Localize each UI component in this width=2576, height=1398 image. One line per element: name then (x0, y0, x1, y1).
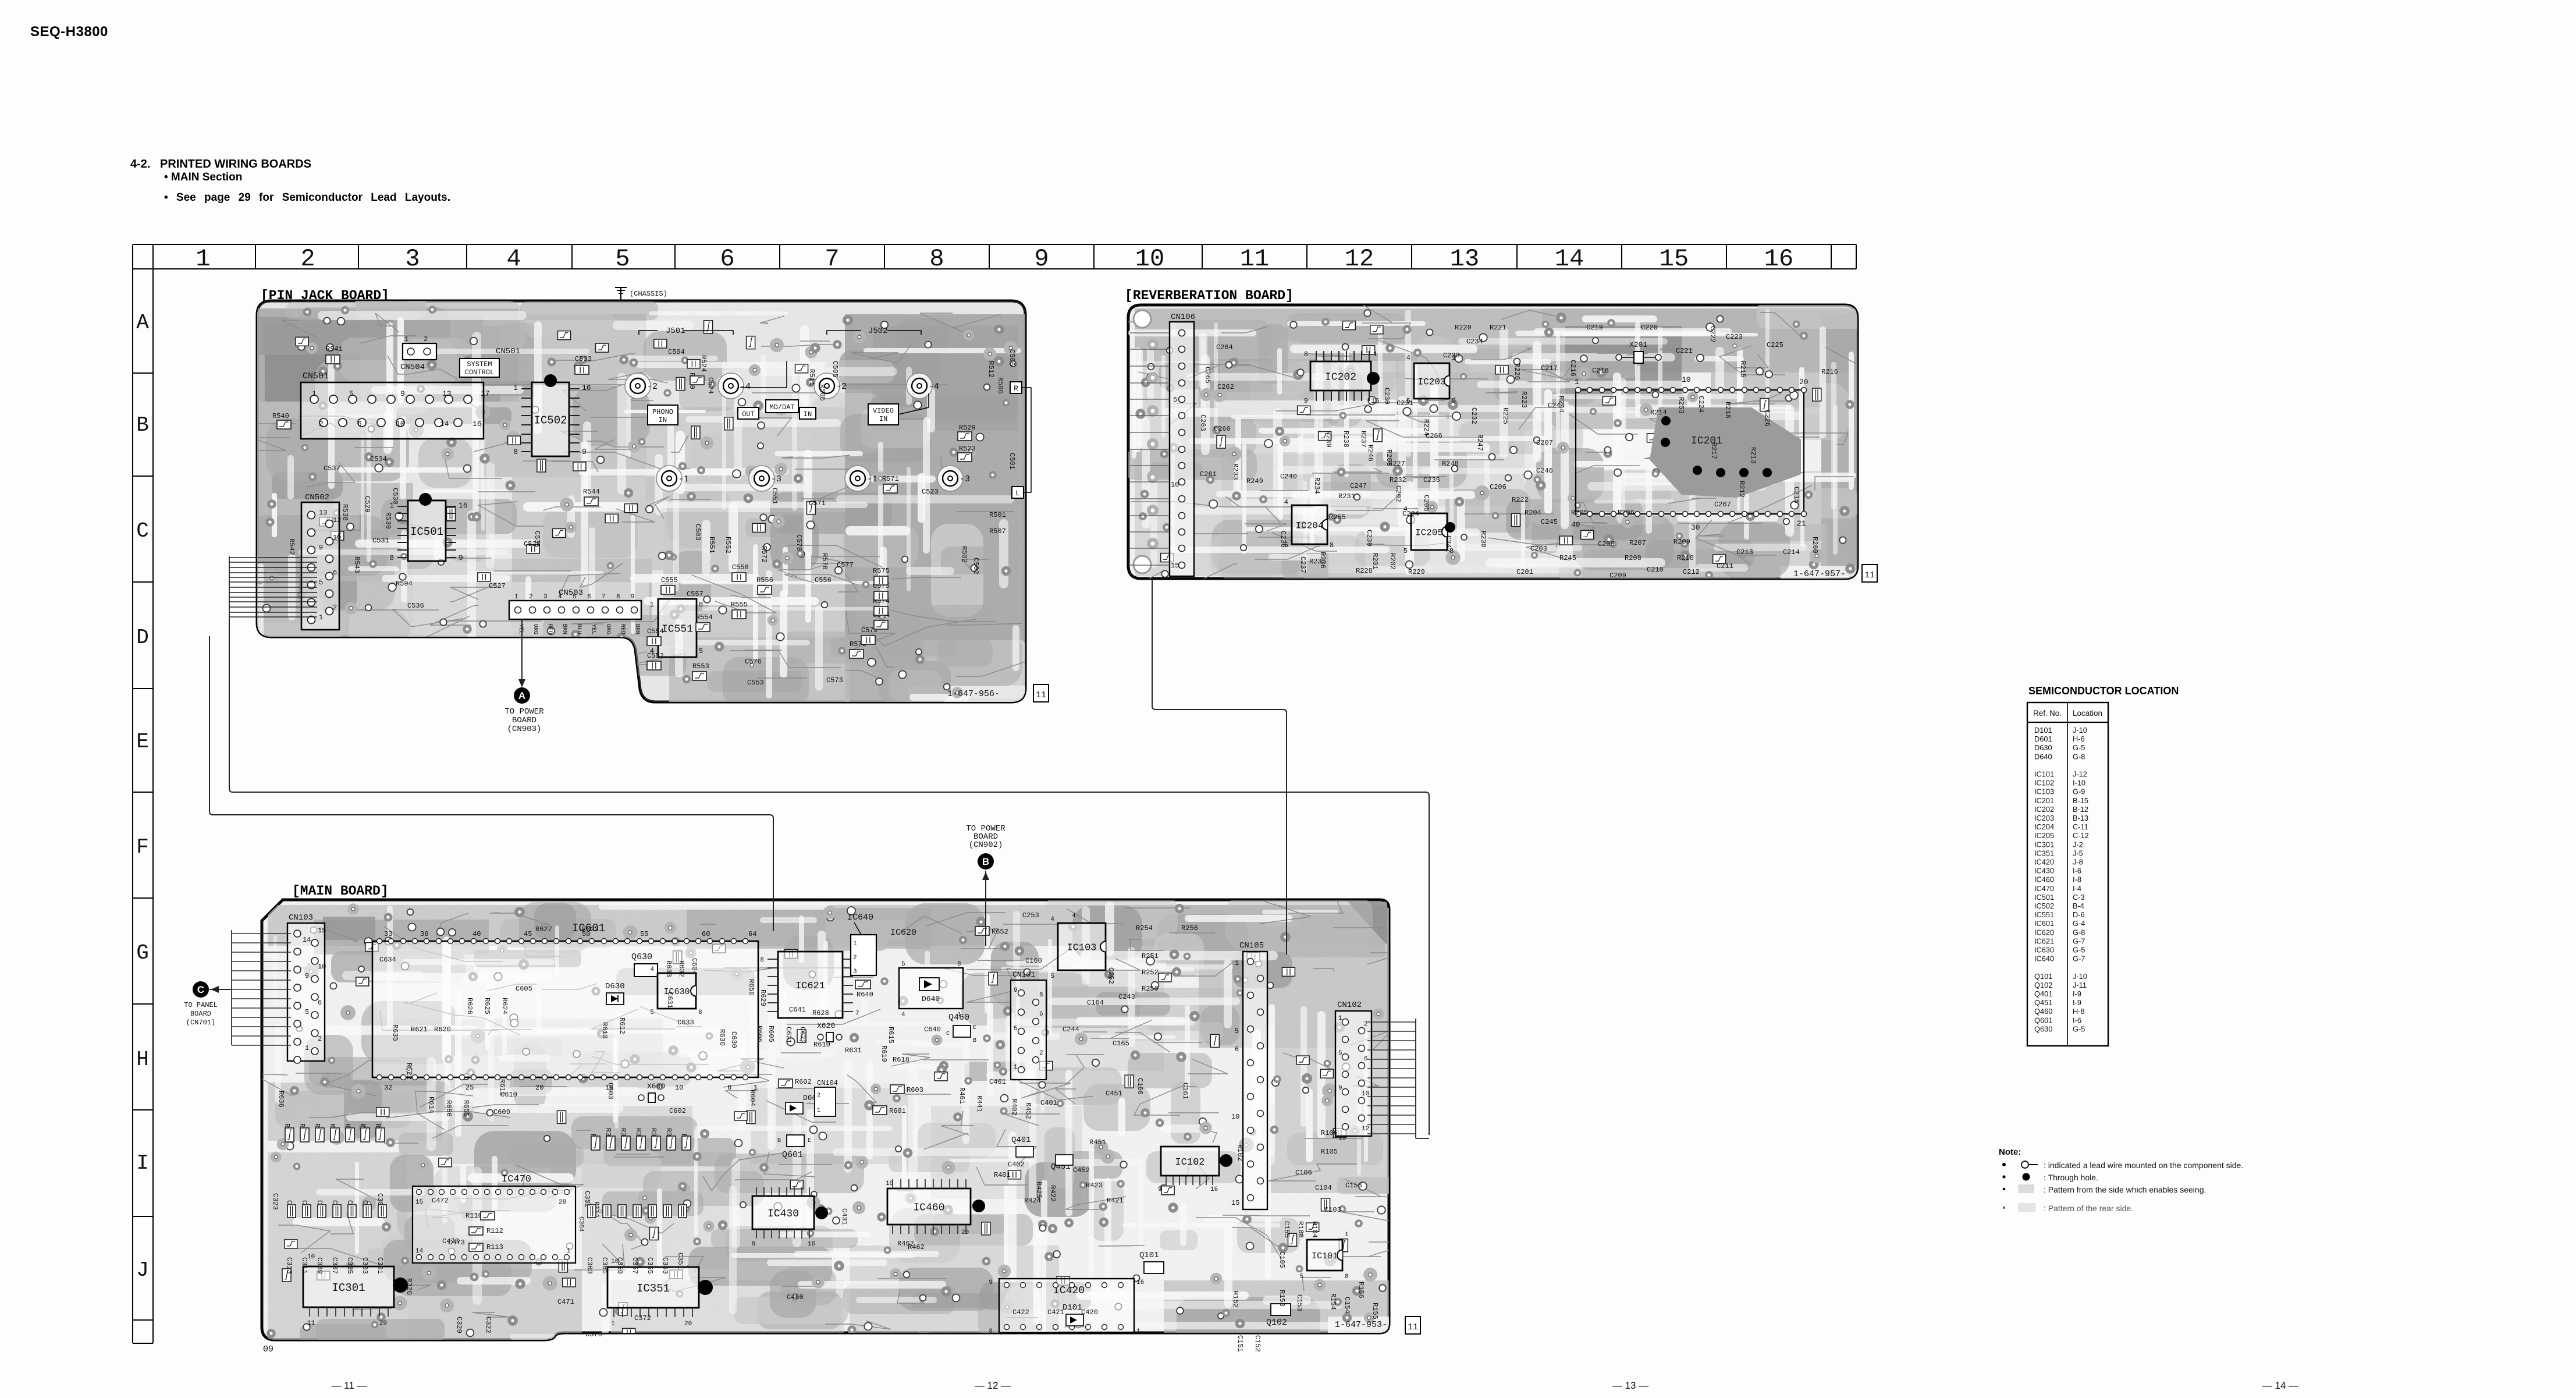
svg-text:IC620: IC620 (890, 928, 916, 938)
svg-text:09: 09 (263, 1344, 273, 1354)
svg-text:C640: C640 (924, 1026, 941, 1034)
svg-text:C260: C260 (1214, 425, 1231, 433)
svg-text:C524: C524 (706, 377, 715, 394)
svg-text:6: 6 (720, 245, 734, 273)
IC301 (303, 1266, 394, 1307)
power board symbol B (978, 853, 994, 870)
svg-text:R402: R402 (1010, 1099, 1018, 1116)
svg-text:2: 2 (529, 594, 533, 601)
svg-text:R551: R551 (708, 537, 716, 553)
svg-text:C230: C230 (1383, 388, 1391, 405)
J502 bracket (827, 331, 921, 335)
svg-text:C372: C372 (634, 1314, 651, 1322)
svg-text:IC502: IC502 (2034, 902, 2054, 910)
svg-text:C202: C202 (1394, 485, 1402, 502)
svg-text:8: 8 (698, 1009, 702, 1016)
svg-text:R239: R239 (1324, 431, 1333, 448)
svg-text:R630: R630 (718, 1029, 726, 1046)
svg-text:IC205: IC205 (1415, 527, 1443, 538)
svg-text:13: 13 (1450, 245, 1479, 273)
svg-text:H: H (136, 1048, 149, 1071)
svg-text:C165: C165 (1113, 1039, 1129, 1048)
svg-text:2: 2 (319, 420, 324, 428)
svg-text:IC621: IC621 (2034, 936, 2054, 945)
svg-text:R204: R204 (1525, 509, 1541, 517)
wire CN502 bus to CN102 (229, 619, 1429, 1135)
small component boxes (1161, 321, 1821, 563)
svg-text:C421: C421 (1047, 1308, 1064, 1317)
svg-text:C621: C621 (784, 1027, 793, 1044)
svg-text:C641: C641 (789, 1006, 806, 1014)
svg-text:G-9: G-9 (2073, 787, 2085, 796)
svg-text:R604: R604 (748, 1090, 756, 1106)
svg-text:B: B (982, 856, 989, 867)
board mottle texture (1128, 305, 1857, 579)
svg-text:7: 7 (855, 1010, 859, 1017)
diode D640 (919, 978, 939, 991)
svg-text:2: 2 (853, 955, 857, 961)
svg-text:C214: C214 (1783, 548, 1800, 556)
svg-text:ORG: ORG (532, 624, 538, 634)
svg-text:-1: -1 (867, 474, 877, 484)
svg-text:1: 1 (1136, 1328, 1140, 1335)
svg-text:40: 40 (472, 930, 481, 938)
svg-text:R153: R153 (1278, 1290, 1286, 1307)
svg-text:1-647-956-: 1-647-956- (947, 689, 1000, 699)
svg-text:IC502: IC502 (534, 414, 567, 427)
svg-text:IC470: IC470 (2034, 884, 2054, 893)
semiconductor location table (2027, 702, 2108, 1046)
svg-text:Q601: Q601 (782, 1150, 803, 1160)
svg-text:11: 11 (1864, 570, 1875, 580)
IC103 (1058, 923, 1106, 970)
svg-text:C236: C236 (1279, 531, 1287, 548)
svg-text:R205: R205 (1571, 509, 1588, 517)
svg-text:3: 3 (405, 245, 420, 273)
svg-text:64: 64 (748, 930, 756, 938)
svg-text:R656: R656 (445, 1100, 453, 1117)
svg-text:IC640: IC640 (2034, 955, 2054, 963)
copper pour blobs (275, 895, 1404, 1347)
jack -4 pad (718, 373, 744, 399)
svg-text:C402: C402 (1008, 1161, 1025, 1169)
svg-text:2: 2 (300, 245, 315, 273)
svg-text:13: 13 (1338, 1135, 1346, 1142)
svg-text:1: 1 (650, 601, 654, 609)
svg-text:10: 10 (1171, 481, 1179, 489)
svg-text:C253: C253 (1022, 911, 1039, 920)
svg-text:C370: C370 (585, 1330, 602, 1339)
copper pour blobs (242, 290, 1022, 708)
svg-text:R237: R237 (1359, 431, 1367, 448)
svg-text:8: 8 (1452, 397, 1456, 405)
svg-text:9: 9 (305, 972, 309, 980)
svg-text:C244: C244 (1548, 402, 1565, 410)
svg-text:16: 16 (1764, 245, 1793, 273)
svg-text:IC551: IC551 (2034, 910, 2054, 919)
svg-text:B: B (136, 413, 149, 437)
svg-text:PHONO: PHONO (652, 408, 673, 416)
svg-text:C: C (946, 1031, 950, 1037)
svg-text:1: 1 (1373, 350, 1377, 359)
svg-text:C210: C210 (1647, 566, 1664, 574)
svg-text:R529: R529 (959, 424, 976, 432)
svg-text:H-8: H-8 (2073, 1007, 2085, 1016)
svg-text:(CHASSIS): (CHASSIS) (630, 290, 667, 298)
svg-text:R625: R625 (483, 998, 491, 1014)
svg-text:R576: R576 (820, 553, 829, 570)
svg-text:R544: R544 (583, 488, 600, 496)
through hole (1445, 522, 1455, 533)
svg-text:1: 1 (319, 613, 323, 622)
svg-text:C303: C303 (361, 1257, 369, 1274)
IC204 (1292, 505, 1327, 544)
svg-text:4: 4 (901, 1012, 905, 1019)
svg-text:R633: R633 (665, 960, 673, 977)
svg-text:5: 5 (650, 1009, 654, 1016)
svg-text:— 12 —: — 12 — (975, 1380, 1011, 1391)
svg-text:CN503: CN503 (559, 588, 583, 598)
svg-text:R614: R614 (427, 1097, 435, 1113)
svg-text:B-4: B-4 (2073, 902, 2084, 910)
svg-text:20: 20 (1799, 378, 1808, 386)
svg-text:C557: C557 (687, 590, 703, 598)
L box (1012, 487, 1024, 498)
svg-text:1: 1 (312, 389, 317, 398)
svg-text:C363: C363 (585, 1257, 594, 1274)
svg-text:IC103: IC103 (2034, 787, 2054, 796)
svg-text:7: 7 (825, 245, 839, 273)
svg-text:25: 25 (466, 1084, 474, 1092)
svg-text:C534: C534 (370, 455, 387, 463)
IC551 (658, 599, 697, 657)
svg-text:R216: R216 (1821, 368, 1838, 376)
svg-text:RED: RED (546, 624, 553, 634)
svg-text:R104: R104 (1310, 1221, 1319, 1238)
svg-text:R102: R102 (1236, 1144, 1244, 1161)
svg-text:BRN: BRN (634, 624, 640, 634)
svg-text:R207: R207 (1629, 539, 1646, 547)
IC202 (1310, 361, 1371, 391)
svg-text:X201: X201 (1629, 340, 1647, 349)
svg-text:: Through hole.: : Through hole. (2044, 1173, 2098, 1182)
svg-text:D101: D101 (1063, 1303, 1082, 1312)
svg-text:C216: C216 (1569, 360, 1577, 377)
svg-text:6: 6 (1364, 1056, 1368, 1063)
svg-text:6: 6 (1039, 1011, 1043, 1018)
svg-text:G-5: G-5 (2073, 946, 2085, 955)
svg-text:R571: R571 (882, 475, 899, 483)
svg-text:— 13 —: — 13 — (1612, 1380, 1648, 1391)
svg-text:8: 8 (389, 553, 394, 562)
svg-text:IC351: IC351 (2034, 849, 2054, 857)
IC201 pin frame (1576, 390, 1804, 514)
svg-text:1: 1 (196, 245, 210, 273)
svg-text:C224: C224 (1697, 396, 1705, 413)
svg-text:C461: C461 (989, 1078, 1006, 1086)
svg-text:IC202: IC202 (2034, 805, 2054, 814)
svg-text:CN103: CN103 (289, 913, 313, 922)
svg-text:C472: C472 (432, 1197, 449, 1205)
svg-text:C473: C473 (448, 1239, 465, 1247)
svg-text:(CN902): (CN902) (969, 840, 1003, 850)
svg-text:R209: R209 (1673, 538, 1690, 546)
svg-text:9: 9 (1014, 987, 1018, 994)
svg-text:10: 10 (318, 963, 326, 971)
svg-text:G-7: G-7 (2073, 955, 2085, 963)
copper pour regions (268, 902, 1391, 1344)
svg-text:IC630: IC630 (2034, 946, 2054, 955)
svg-text:R218: R218 (1724, 402, 1732, 418)
board mottle texture (262, 900, 1389, 1340)
svg-text:C323: C323 (271, 1193, 279, 1210)
svg-text:2: 2 (424, 335, 428, 343)
svg-text:C602: C602 (669, 1107, 686, 1115)
copper pour regions (1135, 308, 1857, 580)
svg-text:C261: C261 (1200, 470, 1217, 478)
svg-text:R217: R217 (1710, 442, 1718, 459)
svg-text:R539: R539 (384, 512, 392, 529)
svg-text:R105: R105 (1321, 1148, 1338, 1156)
svg-text:E: E (808, 1138, 811, 1144)
svg-text:2: 2 (318, 1035, 322, 1043)
svg-text:-4: -4 (740, 382, 751, 392)
svg-text:IC201: IC201 (2034, 796, 2054, 805)
svg-text:4: 4 (506, 245, 521, 273)
svg-text:R152: R152 (1231, 1291, 1239, 1308)
svg-text:C155: C155 (1282, 1221, 1291, 1238)
svg-text:E: E (973, 1025, 976, 1031)
svg-text:C431: C431 (840, 1208, 848, 1225)
svg-text:Q630: Q630 (2034, 1024, 2052, 1033)
svg-text:C226: C226 (1763, 410, 1771, 427)
svg-text:R555: R555 (731, 601, 748, 609)
svg-text:R540: R540 (272, 412, 289, 420)
svg-text:R575: R575 (873, 567, 890, 575)
svg-text:I-6: I-6 (2073, 867, 2081, 875)
jack -2 pad (625, 373, 651, 399)
svg-text:15: 15 (318, 927, 326, 935)
svg-text:R229: R229 (1408, 568, 1425, 576)
svg-text:F: F (136, 835, 149, 859)
svg-text:1: 1 (1345, 1232, 1349, 1239)
svg-text:C219: C219 (1586, 324, 1603, 332)
svg-text:J-10: J-10 (2073, 972, 2087, 981)
through hole (1716, 468, 1725, 477)
connector CN504 (403, 343, 436, 360)
svg-text:IC621: IC621 (795, 981, 825, 992)
svg-text:C422: C422 (1012, 1308, 1029, 1317)
svg-text:: Pattern from the side which: : Pattern from the side which enables se… (2044, 1185, 2206, 1194)
svg-text:R234: R234 (1313, 477, 1321, 494)
IC420 (999, 1279, 1134, 1333)
svg-text:J-12: J-12 (2073, 770, 2087, 779)
MD/DAT box (766, 400, 798, 413)
svg-text:C307: C307 (331, 1257, 339, 1274)
svg-text:R213: R213 (1749, 447, 1757, 464)
solder pads (267, 903, 1386, 1337)
svg-text:I-8: I-8 (2073, 875, 2081, 884)
svg-text:2: 2 (1039, 1050, 1043, 1057)
svg-text:C556: C556 (815, 576, 832, 584)
svg-text:C203: C203 (1530, 545, 1547, 553)
connector CN106 (1170, 322, 1194, 576)
copper pour regions (257, 301, 1025, 702)
svg-text:R103: R103 (1296, 1221, 1305, 1238)
svg-text:9: 9 (631, 594, 635, 601)
svg-text:R154: R154 (1329, 1293, 1337, 1310)
svg-text:-3: -3 (771, 474, 781, 484)
svg-text:Q101: Q101 (1139, 1251, 1159, 1260)
svg-text:R650: R650 (747, 979, 755, 996)
svg-text:C152: C152 (1253, 1335, 1262, 1352)
svg-text:I: I (136, 1151, 149, 1175)
resistor R640 (855, 980, 870, 989)
svg-text:R601: R601 (889, 1107, 906, 1115)
svg-text:C212: C212 (1683, 568, 1700, 576)
svg-text:8: 8 (1345, 1273, 1349, 1280)
svg-text:-2: -2 (647, 382, 658, 392)
jack -3 pad (937, 466, 963, 491)
svg-text:R626: R626 (466, 998, 474, 1014)
svg-text:C231: C231 (1397, 399, 1413, 407)
svg-text:R220: R220 (1455, 324, 1472, 332)
svg-text:IC640: IC640 (847, 913, 873, 922)
small component boxes (296, 321, 815, 684)
svg-text:R542: R542 (287, 538, 296, 555)
svg-text:C222: C222 (1708, 326, 1717, 343)
IC621 (778, 952, 843, 1018)
svg-text:55: 55 (640, 930, 648, 938)
svg-text:8: 8 (1304, 350, 1308, 359)
svg-text:C201: C201 (1516, 568, 1533, 576)
svg-text:1: 1 (567, 1248, 571, 1255)
jack -2 pad (814, 373, 840, 399)
svg-text:BOARD: BOARD (512, 716, 536, 725)
svg-text:R441: R441 (975, 1095, 983, 1112)
svg-text:C353: C353 (661, 1257, 669, 1274)
svg-text:C-12: C-12 (2073, 831, 2089, 840)
svg-text:R606: R606 (755, 1026, 763, 1042)
svg-text:C209: C209 (1609, 572, 1626, 580)
svg-text:BLU: BLU (575, 624, 582, 634)
CN502 bus bracket (229, 556, 317, 619)
svg-text:5: 5 (1338, 1050, 1342, 1057)
svg-text:16: 16 (808, 1241, 815, 1248)
svg-text:R451: R451 (1089, 1138, 1106, 1147)
svg-text:C576: C576 (745, 658, 762, 666)
svg-text:C: C (197, 984, 204, 995)
svg-text:-4: -4 (929, 382, 939, 392)
svg-text:Q102: Q102 (1266, 1318, 1287, 1328)
svg-text:IC203: IC203 (1417, 377, 1445, 387)
svg-text:R627: R627 (535, 925, 552, 934)
svg-text:R512: R512 (987, 361, 995, 378)
svg-text:G-5: G-5 (2073, 743, 2085, 752)
svg-text:R461: R461 (958, 1087, 966, 1104)
svg-text:G-4: G-4 (2073, 919, 2085, 928)
svg-text:R556: R556 (756, 576, 773, 584)
power board symbol A (514, 687, 530, 704)
svg-text:2: 2 (333, 604, 337, 612)
svg-text:R612: R612 (618, 1017, 626, 1034)
svg-text:16: 16 (1371, 397, 1379, 405)
svg-text:12: 12 (333, 516, 341, 524)
svg-text:R523: R523 (959, 445, 976, 453)
svg-text:1: 1 (1014, 1064, 1018, 1071)
svg-text:Q102: Q102 (2034, 981, 2052, 989)
svg-text:C262: C262 (1217, 383, 1234, 391)
svg-text:R631: R631 (845, 1046, 862, 1055)
wire traces (253, 893, 1454, 1353)
svg-text:C364: C364 (577, 1216, 584, 1232)
through hole (815, 1207, 828, 1219)
crystal X201 (1616, 352, 1661, 363)
svg-text:IC103: IC103 (1067, 943, 1096, 954)
svg-text:Ref.: Ref. (2033, 709, 2048, 718)
svg-text:R636: R636 (277, 1091, 285, 1108)
svg-text:IC430: IC430 (2034, 867, 2054, 875)
system control box (460, 359, 499, 377)
svg-text:21: 21 (1797, 519, 1806, 528)
svg-text:1: 1 (1338, 1015, 1342, 1022)
svg-text:C320: C320 (455, 1317, 463, 1333)
svg-text:[REVERBERATION BOARD]: [REVERBERATION BOARD] (1125, 288, 1294, 303)
svg-text:R251: R251 (1142, 952, 1159, 960)
svg-text:R506: R506 (996, 377, 1004, 394)
jack -4 pad (907, 373, 932, 399)
svg-text:IC301: IC301 (332, 1282, 365, 1294)
svg-text:R618: R618 (893, 1056, 909, 1064)
svg-text:C577: C577 (837, 561, 854, 569)
svg-text:C: C (136, 519, 149, 543)
svg-text:4-2.: 4-2. (130, 158, 150, 171)
svg-text:C501: C501 (1008, 453, 1016, 470)
svg-text:6: 6 (333, 569, 337, 577)
svg-text:C103: C103 (1324, 1206, 1341, 1214)
svg-text:9: 9 (1338, 1085, 1342, 1092)
svg-text:C243: C243 (1118, 993, 1135, 1001)
svg-text:R113: R113 (486, 1243, 503, 1251)
svg-text:-2: -2 (836, 382, 847, 392)
svg-text:R245: R245 (1559, 554, 1576, 562)
svg-text:IC102: IC102 (2034, 779, 2054, 787)
R603 R601 (890, 1085, 904, 1094)
svg-text:C246: C246 (1536, 467, 1553, 475)
svg-text:12: 12 (1345, 245, 1374, 273)
connector CN503 (509, 601, 641, 619)
svg-text:C359: C359 (616, 1257, 624, 1274)
svg-text:R632: R632 (677, 960, 685, 977)
svg-text:8: 8 (616, 594, 620, 601)
svg-text:R611: R611 (498, 1079, 506, 1096)
svg-text:SYSTEM: SYSTEM (467, 360, 492, 368)
svg-text:C605: C605 (516, 985, 532, 993)
svg-text:R421: R421 (1107, 1197, 1124, 1205)
svg-text:5: 5 (1173, 396, 1177, 404)
routing channels (1128, 309, 1856, 575)
svg-text:CN105: CN105 (1239, 941, 1264, 950)
svg-text:Location: Location (2073, 709, 2102, 718)
svg-text:A: A (518, 690, 525, 701)
svg-text:C265: C265 (1203, 367, 1211, 384)
svg-text:R227: R227 (1388, 460, 1405, 468)
svg-text:1: 1 (513, 384, 518, 392)
svg-text:R214: R214 (1650, 409, 1667, 417)
svg-text:C266: C266 (1426, 432, 1442, 440)
svg-text:10: 10 (396, 420, 405, 428)
svg-text:C631: C631 (666, 992, 674, 1009)
